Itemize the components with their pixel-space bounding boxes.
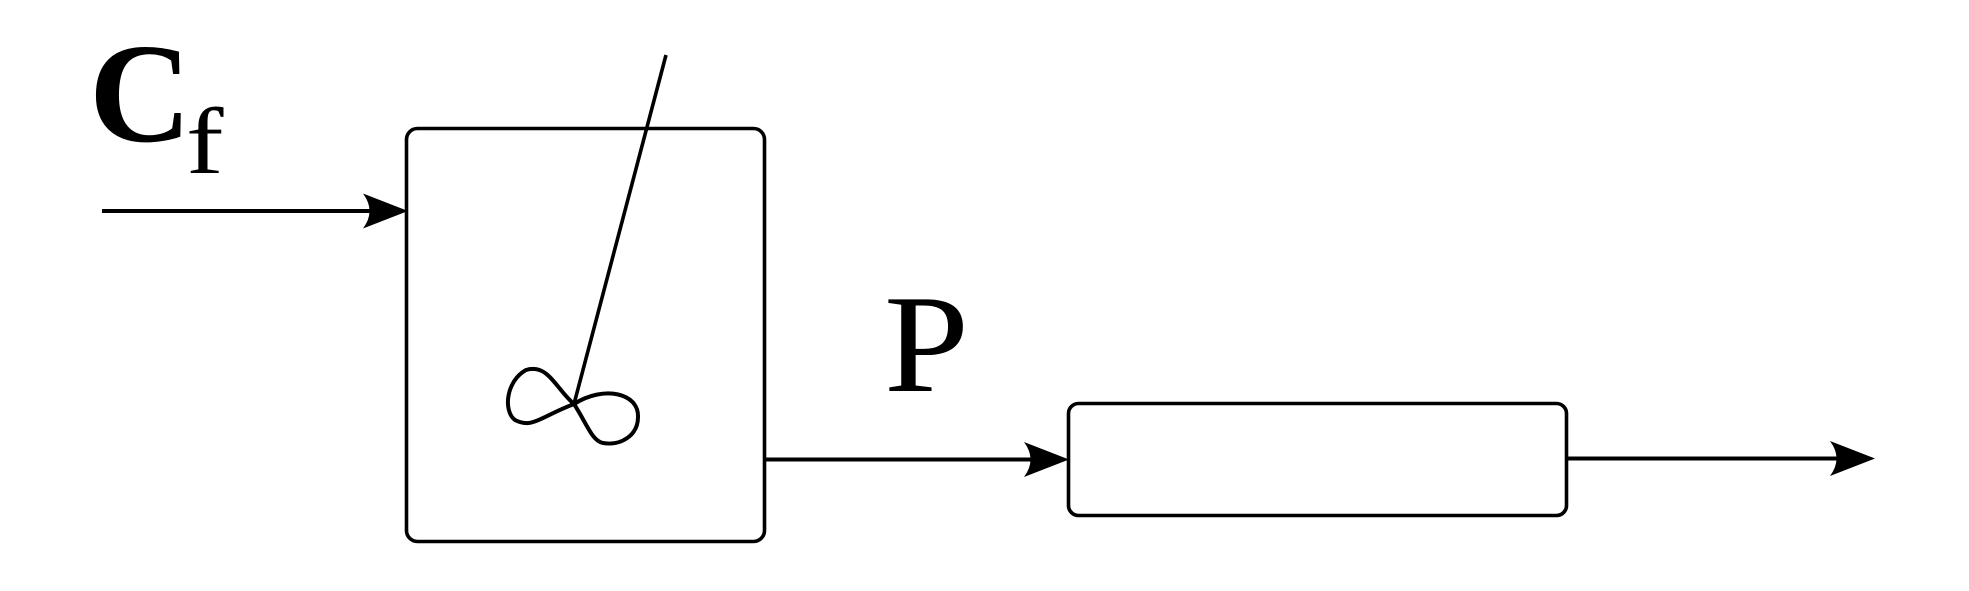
- PFR tube box: [1069, 404, 1567, 516]
- CSTR vessel box: [407, 129, 765, 542]
- wire: feed stream line into CSTR: [102, 209, 392, 213]
- svg-text:P: P: [884, 267, 969, 422]
- outlet arrowhead: [1830, 441, 1875, 476]
- stirrer impeller (figure-eight): [508, 369, 638, 444]
- wire: product stream from CSTR to PFR: [764, 458, 1053, 462]
- feed arrowhead: [363, 194, 408, 229]
- wire: outlet stream line: [1566, 457, 1859, 461]
- stirrer shaft: [574, 55, 666, 404]
- product arrowhead: [1024, 442, 1069, 477]
- svg-text:f: f: [186, 90, 224, 194]
- svg-text:C: C: [89, 14, 192, 172]
